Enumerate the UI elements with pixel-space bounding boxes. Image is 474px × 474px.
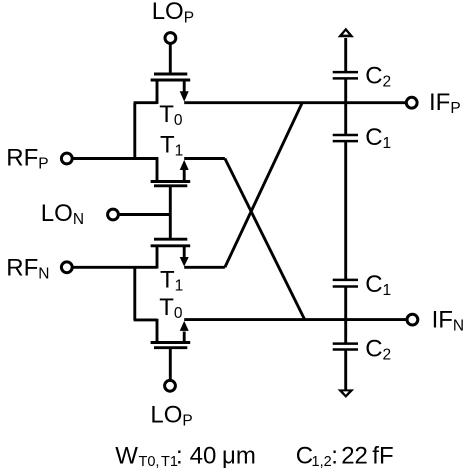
wire <box>184 318 407 321</box>
node LO_P (bottom terminal) <box>165 380 176 391</box>
wire <box>344 38 347 72</box>
capacitor C1 (bottom) <box>333 280 358 287</box>
node IF_N (terminal) <box>407 314 418 325</box>
wire <box>169 186 172 239</box>
svg-text:C1,2:22fF: C1,2:22fF <box>296 443 394 471</box>
node RF_P (terminal) <box>61 153 72 164</box>
wire <box>134 101 157 104</box>
wire <box>184 266 225 269</box>
capacitor C2 (bottom) <box>333 344 358 350</box>
wire <box>344 141 347 280</box>
node IF_P (terminal) <box>406 97 417 108</box>
wire (cross-couple T1 lower to IF_P) <box>225 103 302 268</box>
wire <box>184 157 225 160</box>
transistor T1 (lower) <box>151 239 191 268</box>
wire <box>344 78 347 135</box>
wire <box>119 213 171 216</box>
wire <box>184 101 406 104</box>
wire <box>73 266 157 269</box>
capacitor C2 (top) <box>333 72 358 78</box>
node LO_N (terminal) <box>108 209 119 220</box>
transistor T0 (bottom) <box>151 319 191 348</box>
wire (cross-couple T1 upper to IF_N) <box>225 159 305 320</box>
node RF_N (terminal) <box>61 262 72 273</box>
wire <box>344 350 347 391</box>
wire <box>73 157 159 160</box>
wire <box>344 287 347 344</box>
wire <box>133 267 136 320</box>
transistor T0 (top) <box>151 74 191 104</box>
wire <box>169 348 172 382</box>
wire <box>134 318 157 321</box>
capacitor C1 (top) <box>333 135 358 141</box>
ground (bottom open arrow) <box>338 389 355 398</box>
wire <box>133 103 136 159</box>
node LO_P (top terminal) <box>165 33 176 44</box>
transistor T1 (upper) <box>151 157 191 186</box>
ground (top open arrow) <box>338 28 354 38</box>
wire <box>169 43 172 74</box>
